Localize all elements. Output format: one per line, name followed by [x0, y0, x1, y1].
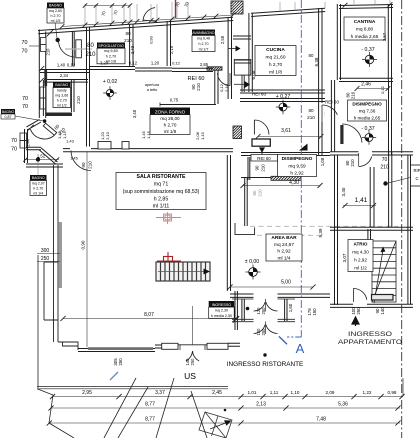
svg-text:0,12: 0,12: [172, 61, 181, 66]
svg-text:1,40: 1,40: [57, 63, 66, 68]
svg-text:3,57: 3,57: [382, 32, 387, 41]
svg-text:h 2,92: h 2,92: [354, 258, 367, 263]
label disimpegno9: [278, 155, 317, 177]
svg-text:1,08: 1,08: [320, 157, 325, 166]
svg-text:mq 6,46: mq 6,46: [197, 37, 210, 41]
svg-text:ml 1/8: ml 1/8: [269, 70, 282, 76]
svg-text:h 2,70: h 2,70: [57, 98, 67, 102]
gray shelf line: [65, 48, 92, 50]
svg-text:2,09: 2,09: [326, 390, 335, 395]
wall cucina left: [249, 13, 252, 92]
svg-text:ml 1/4: ml 1/4: [33, 191, 43, 195]
svg-text:mq 9,59: mq 9,59: [288, 163, 306, 169]
corridor left wall stub: [248, 157, 250, 180]
wall spogliatoio bottom: [89, 67, 135, 70]
red survey line top: [175, 0, 177, 18]
wall disimpegno bottom left part: [241, 177, 271, 179]
svg-text:1,10: 1,10: [291, 390, 300, 395]
svg-text:INGRESSO: INGRESSO: [212, 303, 232, 307]
svg-text:1,15: 1,15: [146, 130, 151, 139]
svg-text:h 2,92: h 2,92: [290, 171, 304, 177]
corridor right wall (disimpegno vertical leg): [245, 177, 248, 226]
svg-text:(sup somministrazione mq 68,53: (sup somministrazione mq 68,53): [123, 189, 200, 195]
svg-text:2,43: 2,43: [130, 45, 135, 54]
svg-text:210: 210: [261, 164, 266, 172]
svg-text:BAGNO: BAGNO: [49, 4, 62, 8]
svg-text:C: C: [415, 176, 418, 181]
svg-text:CANTINA: CANTINA: [354, 19, 376, 25]
svg-text:250: 250: [41, 256, 50, 262]
label atrio: [348, 240, 373, 272]
svg-text:80: 80: [252, 190, 257, 195]
svg-text:a tetto: a tetto: [147, 88, 158, 92]
bagno app mid wall: [370, 167, 374, 227]
svg-text:mq 7,36: mq 7,36: [359, 108, 376, 113]
door sala top 90: [70, 147, 91, 152]
wall US to vestibule: [228, 343, 240, 346]
disimpegno7 right wall: [389, 80, 392, 155]
svg-text:2,58: 2,58: [220, 35, 225, 44]
wall row y153 right: [330, 152, 413, 155]
svg-text:70: 70: [11, 138, 17, 144]
svg-text:140: 140: [380, 307, 385, 315]
ledge 0,75: [160, 104, 216, 106]
section slash blue: [279, 336, 287, 344]
svg-text:80: 80: [87, 43, 94, 49]
dim 4,30 line: [243, 185, 320, 187]
wall rei60 below cucina: [240, 99, 325, 102]
svg-text:APPARTAMENTO: APPARTAMENTO: [338, 339, 402, 346]
svg-text:1,15: 1,15: [62, 130, 67, 139]
wall zona forno / sala top: [63, 149, 233, 152]
vestibule left wall: [242, 299, 244, 321]
svg-text:70: 70: [22, 104, 28, 110]
building bottom edge line: [37, 255, 39, 388]
wall corridor h2: [234, 60, 251, 63]
svg-text:A: A: [296, 341, 305, 356]
label bagno2: [30, 175, 47, 196]
door bagno2 dim: [24, 159, 59, 161]
svg-text:70: 70: [22, 49, 28, 55]
svg-text:mq 24,87: mq 24,87: [274, 242, 294, 248]
label left 0,87: [1, 109, 15, 114]
svg-text:90: 90: [81, 162, 86, 168]
svg-text:SALA RISTORANTE: SALA RISTORANTE: [137, 174, 187, 180]
svg-text:1,20: 1,20: [151, 61, 160, 66]
svg-text:0,98: 0,98: [388, 390, 397, 395]
svg-text:CUCINA: CUCINA: [266, 47, 285, 53]
duct lines: [241, 75, 243, 92]
dim 1,41: [343, 205, 376, 207]
svg-text:210: 210: [351, 91, 356, 99]
door cucina right swing triangle: [321, 112, 326, 117]
hatched pillar mid: [233, 126, 242, 139]
vestibule outer-left wall: [234, 291, 236, 330]
door cucina right 80 opening: [320, 103, 325, 122]
svg-text:- 0,37: - 0,37: [361, 47, 374, 53]
svg-text:BAGNO: BAGNO: [55, 83, 68, 87]
wall bagno2 diagonal right: [39, 148, 57, 164]
svg-text:210: 210: [380, 165, 389, 171]
wall spogliatoio right: [130, 24, 133, 66]
wall top outer middle band: [90, 17, 233, 30]
door top wall 0,90 arc outside: [143, 8, 155, 22]
svg-text:mq 2,30: mq 2,30: [215, 309, 228, 313]
wall bagno2 mid: [26, 147, 41, 150]
wall diagonal to bagno: [27, 119, 41, 129]
arrow ingresso app: [352, 317, 359, 326]
svg-text:1,01: 1,01: [248, 390, 257, 395]
stairs arrow: [372, 241, 396, 302]
wall left outer upper (thick double): [38, 30, 40, 119]
svg-text:210: 210: [350, 159, 355, 167]
label avanbagno: [192, 30, 215, 52]
svg-text:210: 210: [258, 189, 263, 197]
svg-text:70: 70: [22, 40, 28, 46]
svg-text:ZONA FORNO: ZONA FORNO: [155, 109, 186, 114]
svg-text:0,90: 0,90: [81, 240, 86, 249]
svg-text:h 2,70: h 2,70: [51, 14, 61, 18]
wall areabar bottom right: [278, 294, 331, 297]
disimpegno7 left wall: [331, 80, 334, 152]
svg-text:ml 1/11: ml 1/11: [153, 204, 170, 210]
top dim line sloped: [62, 15, 233, 27]
US exit door: [162, 343, 178, 349]
wall cucina top: [251, 8, 325, 16]
svg-text:250: 250: [356, 307, 361, 315]
svg-text:mq 8,80: mq 8,80: [356, 26, 374, 32]
svg-text:h 2,70: h 2,70: [33, 186, 43, 190]
svg-text:300: 300: [41, 248, 50, 254]
label cantina: [344, 17, 385, 40]
svg-text:2,34: 2,34: [60, 73, 69, 78]
pillar bumps sala top wall: [98, 142, 111, 150]
svg-text:0,12: 0,12: [380, 85, 385, 94]
door arc disimpegno7: [342, 124, 362, 143]
svg-text:mq 71: mq 71: [154, 181, 169, 187]
sala bottom wall right part: [155, 345, 175, 348]
closet corridor: [234, 60, 251, 76]
door in row-wall 70: [359, 150, 373, 157]
window strip sala left: [59, 222, 62, 288]
red cross 2: [157, 252, 181, 269]
svg-text:6,38: 6,38: [314, 57, 319, 66]
svg-text:h media 2,50: h media 2,50: [211, 314, 232, 318]
svg-text:70: 70: [382, 157, 388, 163]
svg-text:ml 1/2: ml 1/2: [354, 266, 367, 271]
wall spogliatoio left: [87, 27, 90, 67]
door rei 90 arc: [218, 73, 231, 86]
svg-text:US: US: [184, 371, 196, 381]
dashed ceiling line 1: [250, 225, 398, 227]
svg-text:0,12: 0,12: [129, 61, 138, 66]
label zona forno: [150, 108, 190, 135]
svg-text:BAGNO: BAGNO: [32, 176, 45, 180]
svg-text:2,13: 2,13: [256, 402, 266, 408]
door leaf spogliatoio corridor: [76, 40, 82, 58]
window bagno2 bracket: [20, 133, 27, 141]
label bagno handy: [53, 82, 71, 108]
svg-text:6,08: 6,08: [251, 70, 256, 79]
svg-text:2,46: 2,46: [361, 82, 371, 88]
svg-text:80: 80: [308, 108, 314, 113]
sala bottom wall window: [78, 349, 155, 352]
svg-text:8,77: 8,77: [145, 402, 155, 408]
sala left wall: [54, 165, 59, 342]
wall handy left: [43, 80, 46, 116]
svg-text:2,95: 2,95: [82, 390, 92, 396]
svg-text:210: 210: [124, 38, 132, 43]
wall bagno small bottom: [26, 164, 63, 167]
svg-text:ml 1/5: ml 1/5: [51, 19, 61, 23]
wall handy right: [71, 80, 74, 112]
svg-text:DISIMPEGNO: DISIMPEGNO: [352, 101, 382, 106]
svg-text:h 2,70: h 2,70: [269, 62, 283, 68]
triangle black section: [299, 144, 308, 151]
gate square steps: [199, 412, 232, 438]
svg-text:ATRIO: ATRIO: [354, 242, 368, 247]
svg-text:REI 60: REI 60: [187, 76, 204, 82]
svg-text:250: 250: [190, 358, 195, 366]
label sala: [116, 173, 206, 210]
svg-text:70: 70: [22, 96, 28, 102]
svg-text:80: 80: [309, 53, 314, 58]
svg-text:5,39: 5,39: [318, 228, 323, 237]
svg-text:0,87: 0,87: [5, 115, 12, 119]
svg-text:h 2,70: h 2,70: [106, 54, 117, 58]
chain1: [52, 396, 403, 398]
svg-text:80: 80: [125, 31, 131, 36]
svg-text:1,22: 1,22: [363, 390, 372, 395]
wall bagno1-corridor x75: [72, 32, 74, 67]
chain2: [51, 407, 401, 409]
svg-text:5,00: 5,00: [281, 280, 291, 286]
ingresso label: [209, 301, 235, 318]
dashed ceiling line 2: [257, 234, 325, 236]
svg-text:150: 150: [312, 308, 317, 316]
svg-text:1,41: 1,41: [355, 197, 368, 204]
svg-text:2,19: 2,19: [169, 45, 174, 54]
svg-text:3,61: 3,61: [281, 128, 291, 134]
wall top outer left cluster: [38, 27, 90, 34]
svg-text:ml 1/8: ml 1/8: [164, 129, 177, 134]
svg-text:h media 2,65: h media 2,65: [351, 34, 379, 40]
label disimpegno7: [348, 100, 387, 121]
svg-text:DISIMPEGNO: DISIMPEGNO: [282, 156, 313, 162]
svg-text:REI 60: REI 60: [257, 156, 271, 161]
vertical ext right bottom: [402, 378, 404, 396]
top window dim line: [85, 5, 130, 7]
driveway diagonals: [104, 378, 136, 438]
svg-text:1,15: 1,15: [200, 131, 205, 140]
section line A blue: [300, 0, 302, 337]
vestibule top double door: [254, 302, 266, 311]
hatch strip avanbagno bottom: [207, 67, 222, 70]
bagno app right wall: [389, 152, 392, 227]
svg-text:4,30: 4,30: [289, 180, 299, 186]
vestibule right wall: [285, 299, 287, 321]
svg-text:210: 210: [88, 161, 93, 169]
svg-text:h 2,85: h 2,85: [154, 196, 169, 202]
atrio left wall: [335, 155, 338, 305]
svg-text:mq 26,00: mq 26,00: [160, 116, 180, 121]
svg-text:handy: handy: [57, 88, 67, 92]
wall corridor disimpegno top: [241, 153, 330, 156]
wall sala right: [227, 155, 230, 291]
wall cucina bottom: [240, 90, 325, 93]
svg-text:+ 0,02: + 0,02: [103, 79, 118, 85]
wall bagno1 inner dark segment: [44, 70, 47, 86]
door handy diagonal leaf: [43, 123, 56, 135]
svg-text:5,36: 5,36: [338, 402, 348, 408]
boundary diagonal bottom-left: [49, 423, 74, 438]
left low annex rect: [44, 262, 58, 320]
svg-text:0,12: 0,12: [67, 63, 76, 68]
rip wall right: [408, 155, 411, 304]
svg-text:apertura: apertura: [145, 83, 160, 87]
svg-text:0,90: 0,90: [149, 35, 154, 44]
hatch strip disimpegno bottom: [271, 176, 301, 180]
label bagno1: [47, 3, 64, 24]
wall cantina top: [339, 5, 393, 9]
svg-text:mq 3,66: mq 3,66: [55, 93, 68, 97]
wall rei lobby right: [215, 70, 218, 104]
svg-text:8,77: 8,77: [145, 417, 155, 423]
svg-text:90: 90: [255, 165, 260, 170]
svg-text:250: 250: [261, 307, 266, 315]
chain3: [49, 422, 400, 424]
wall avanbagno right: [228, 17, 231, 99]
red cross 1: [156, 212, 181, 224]
porch bottom edge: [37, 385, 228, 387]
svg-text:3,48: 3,48: [132, 109, 137, 118]
dot leader to RIP: [383, 181, 387, 185]
svg-text:2,85: 2,85: [200, 62, 209, 67]
svg-text:1,60: 1,60: [288, 303, 293, 312]
svg-text:+ 0,27: + 0,27: [276, 94, 291, 100]
arrow 2: [234, 83, 245, 85]
wall avanbagno bottom: [172, 68, 213, 71]
label area bar: [266, 234, 302, 261]
svg-text:- 0,37: - 0,37: [361, 126, 374, 132]
wall corridor bottom band: [40, 70, 90, 73]
svg-text:210: 210: [85, 52, 96, 58]
rip label: [411, 165, 420, 186]
wall bagno small left: [25, 129, 28, 163]
sala bottom-left step: [58, 342, 78, 350]
label spogliatoio: [97, 43, 125, 64]
door rei60 disimpegno: [254, 120, 269, 135]
svg-text:ml 1/2: ml 1/2: [57, 103, 67, 107]
atrio bottom wall: [330, 304, 413, 307]
svg-text:h 2,70: h 2,70: [199, 42, 209, 46]
svg-text:mq 2,07: mq 2,07: [32, 181, 45, 185]
stair wall x372: [368, 229, 371, 241]
cantina walls: [337, 4, 340, 80]
svg-text:1,44: 1,44: [27, 139, 31, 146]
chain left edge: [37, 389, 53, 395]
stairs right: [372, 241, 396, 302]
svg-text:210: 210: [76, 96, 81, 104]
svg-text:2,45: 2,45: [212, 390, 222, 396]
alcove corridor bottom: [235, 223, 255, 235]
dot entrance: [246, 307, 250, 311]
window handy left bracket: [40, 87, 46, 98]
svg-text:REI 60: REI 60: [325, 100, 339, 105]
label cucina: [255, 46, 296, 76]
wall zona forno left: [87, 67, 90, 150]
svg-text:mq 4,30: mq 4,30: [352, 250, 369, 255]
svg-text:3,37: 3,37: [155, 390, 165, 396]
svg-text:3,07: 3,07: [342, 253, 347, 262]
vestibule bottom double door: [254, 325, 266, 334]
hatched pillar top: [231, 1, 243, 14]
arrow 1: [228, 48, 236, 50]
svg-text:0,75: 0,75: [170, 98, 179, 103]
svg-text:mq 6,60: mq 6,60: [104, 49, 118, 53]
wall corridor h1: [233, 36, 251, 39]
svg-text:250: 250: [261, 328, 266, 336]
svg-text:mq 2,60: mq 2,60: [49, 9, 62, 13]
svg-text:± 0,00: ± 0,00: [245, 259, 259, 265]
svg-text:h media 2,65: h media 2,65: [354, 115, 381, 120]
svg-text:AVANBAGNO: AVANBAGNO: [192, 31, 214, 35]
svg-text:2,10: 2,10: [224, 83, 229, 92]
wall anti bottom: [135, 68, 172, 71]
svg-text:AREA BAR: AREA BAR: [271, 235, 297, 241]
vestibule bottom wall: [232, 318, 254, 320]
svg-text:1,43: 1,43: [66, 139, 75, 144]
extension lines top: [84, 4, 86, 25]
door bagno1 arc: [56, 38, 60, 42]
wall anti right / avanbagno left: [167, 21, 170, 66]
svg-text:RIP: RIP: [414, 168, 420, 173]
svg-text:h 2,92: h 2,92: [277, 249, 291, 255]
svg-text:h 2,70: h 2,70: [164, 123, 177, 128]
wall areabar bottom left: [230, 294, 254, 297]
boundary dashdot right: [401, 0, 403, 438]
svg-text:mq 21,60: mq 21,60: [265, 55, 285, 61]
stairs threshold dark: [372, 295, 394, 301]
wall handy bottom dark: [46, 113, 72, 117]
svg-text:1,11: 1,11: [270, 390, 279, 395]
svg-text:SPOGLIATOIO: SPOGLIATOIO: [98, 44, 124, 48]
svg-text:250: 250: [118, 358, 123, 366]
door atrio bottom: [353, 302, 367, 307]
svg-text:2,10: 2,10: [105, 131, 110, 140]
svg-text:210: 210: [196, 83, 201, 91]
wall atrio top: [330, 227, 413, 230]
svg-text:REI 60: REI 60: [252, 92, 266, 97]
svg-text:3,20: 3,20: [100, 61, 109, 66]
wall handy top: [44, 80, 88, 83]
wall cucina right: [319, 8, 322, 155]
svg-text:BAGNO: BAGNO: [2, 110, 15, 114]
svg-text:70: 70: [11, 147, 17, 153]
window left upper bracket: [41, 38, 47, 45]
svg-text:210: 210: [307, 115, 315, 120]
svg-text:8,07: 8,07: [144, 312, 154, 318]
svg-text:ml 1/4: ml 1/4: [277, 255, 290, 261]
svg-text:1,45: 1,45: [70, 156, 79, 161]
svg-text:3,40: 3,40: [341, 187, 346, 196]
svg-text:7,48: 7,48: [316, 417, 326, 423]
stairs sala: [156, 262, 210, 281]
svg-text:INGRESSO RISTORANTE: INGRESSO RISTORANTE: [227, 361, 304, 368]
svg-text:ml 1/7: ml 1/7: [199, 47, 209, 51]
svg-text:INGRESSO: INGRESSO: [348, 331, 392, 338]
blue slash bottom-left: [110, 372, 118, 380]
